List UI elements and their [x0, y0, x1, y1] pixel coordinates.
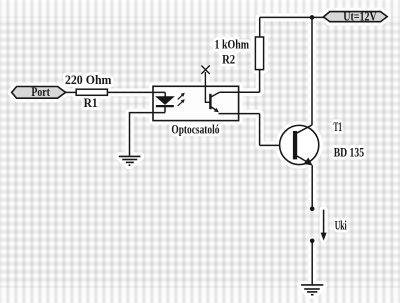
wire T1 collector	[311, 17, 313, 125]
net label Port	[12, 85, 66, 99]
node dot ground side	[310, 239, 315, 244]
wire phototransistor collector to R2	[220, 91, 260, 93]
node dot emitter	[310, 206, 315, 211]
wire top rail to Ut=12V	[260, 16, 325, 18]
svg-text:Ut=12V: Ut=12V	[343, 10, 377, 24]
wire to bottom ground	[311, 241, 313, 285]
svg-text:220 Ohm: 220 Ohm	[65, 73, 112, 87]
phototransistor of optocoupler	[201, 66, 219, 113]
wire emitter down segment	[259, 114, 261, 146]
svg-text:1 kOhm: 1 kOhm	[215, 37, 250, 51]
LED light arrows	[178, 93, 185, 106]
LED of optocoupler	[156, 92, 174, 112]
net label Ut=12V	[324, 10, 388, 24]
wire R2 top lead	[259, 17, 261, 37]
svg-text:Uki: Uki	[335, 218, 347, 232]
wire Port to R1	[66, 91, 77, 93]
wire T1 emitter down	[311, 165, 313, 206]
wire R1 to LED anode	[107, 91, 165, 93]
wire R2 bottom lead	[259, 70, 261, 93]
svg-text:T1: T1	[334, 120, 343, 134]
optocoupler U1 box	[153, 86, 239, 120]
wire phototransistor emitter	[219, 113, 260, 115]
svg-text:R2: R2	[222, 53, 235, 67]
voltage arrow Uki	[321, 210, 327, 241]
ground bottom	[301, 285, 323, 295]
transistor T1	[280, 125, 319, 166]
ground left	[119, 156, 141, 165]
svg-text:Port: Port	[31, 85, 50, 99]
junction dot top rail	[310, 15, 315, 20]
wire LED cathode to ground	[130, 113, 166, 156]
svg-text:BD 135: BD 135	[334, 145, 364, 159]
resistor R2	[255, 37, 263, 70]
resistor R1	[76, 89, 107, 95]
svg-text:R1: R1	[84, 96, 98, 110]
svg-text:Optocsatoló: Optocsatoló	[171, 123, 219, 137]
wire to T1 base	[260, 144, 293, 146]
